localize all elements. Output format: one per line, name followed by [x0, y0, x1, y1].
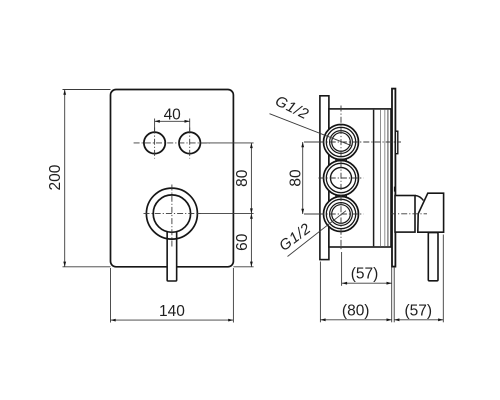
- svg-text:200: 200: [47, 164, 64, 190]
- svg-text:(57): (57): [405, 302, 433, 319]
- svg-text:G1/2: G1/2: [276, 220, 314, 255]
- svg-text:80: 80: [234, 169, 251, 187]
- svg-text:(80): (80): [342, 302, 370, 319]
- svg-text:G1/2: G1/2: [272, 93, 311, 124]
- svg-text:40: 40: [164, 107, 182, 124]
- svg-text:80: 80: [288, 169, 305, 187]
- svg-text:(57): (57): [351, 266, 379, 283]
- svg-text:60: 60: [234, 233, 251, 251]
- svg-text:140: 140: [159, 303, 185, 320]
